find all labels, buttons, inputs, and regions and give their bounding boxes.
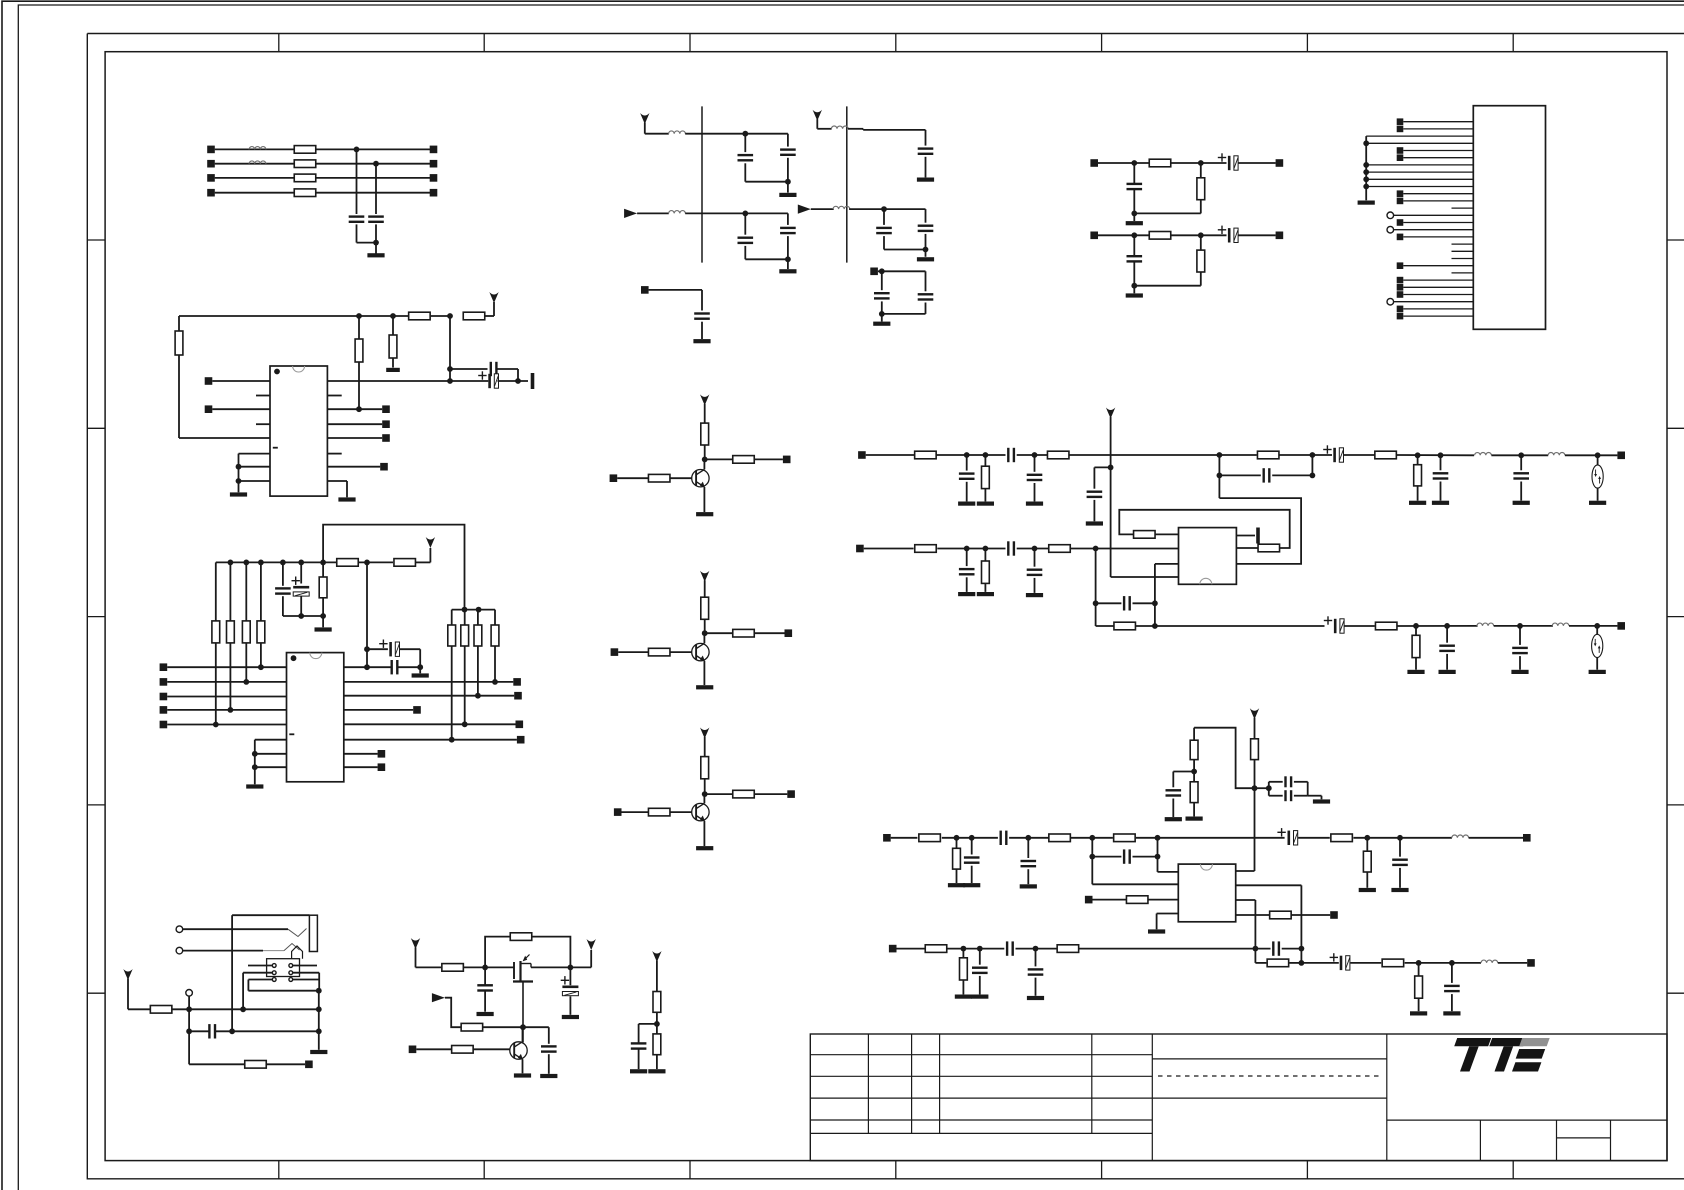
junction (1131, 283, 1137, 289)
resistor RK2 (1190, 740, 1198, 759)
inductor LJ1 (1475, 453, 1492, 456)
wire (238, 454, 240, 493)
junction (475, 693, 481, 699)
wire (344, 753, 378, 755)
ground (696, 846, 713, 850)
resistor RK7 (1331, 834, 1353, 842)
antenna ANT-D (123, 969, 132, 980)
wire (375, 224, 377, 242)
ground (873, 322, 890, 326)
jack ring contact (292, 946, 303, 959)
wire collector (703, 794, 705, 803)
resistor RK10 (1126, 896, 1148, 904)
capacitor CD1 (208, 1024, 210, 1038)
resistor RB3 left (175, 331, 183, 355)
wire (1134, 212, 1201, 214)
resistor RC-right (477, 610, 479, 625)
pad (1617, 452, 1625, 460)
ground (1165, 817, 1182, 821)
node VCC rail B (179, 315, 408, 317)
wire (1172, 799, 1174, 818)
junction (1155, 854, 1161, 860)
terminator T-bar (1256, 528, 1260, 544)
pad CN1-17 (1397, 234, 1404, 241)
wire (1071, 548, 1179, 550)
wire (1096, 625, 1114, 627)
ground (1313, 799, 1330, 803)
wire (1236, 547, 1258, 549)
junction (964, 452, 970, 458)
wire loop (485, 937, 510, 968)
resistor RC-left (215, 562, 217, 621)
wire sw row2 (243, 972, 272, 974)
capacitor CF1 (744, 134, 746, 152)
wire (1093, 500, 1095, 521)
wire (522, 1059, 524, 1073)
net line A3 (215, 177, 434, 179)
pad A3 right (430, 174, 438, 182)
wire (1092, 856, 1121, 858)
junction (298, 613, 304, 619)
wire (639, 1023, 657, 1025)
pad (378, 763, 386, 771)
resistor RJ12 (1114, 622, 1136, 630)
pad (1523, 834, 1531, 842)
wire pin4 stub (256, 423, 270, 425)
capacitor CK10 (1006, 941, 1008, 955)
pad A2 right (430, 160, 438, 168)
pad CN1-25 (1397, 291, 1404, 298)
capacitor CF8 (925, 209, 927, 223)
wire (1236, 884, 1302, 886)
wire (925, 157, 927, 178)
junction B9 (236, 478, 242, 484)
wire (1095, 549, 1097, 627)
net line A4 (215, 192, 434, 194)
wire (670, 811, 696, 813)
ground (779, 269, 796, 273)
wire (1396, 454, 1474, 456)
wire (1236, 914, 1270, 916)
junction (1152, 623, 1158, 629)
junction B6 (447, 378, 453, 384)
wire (704, 619, 706, 633)
junction (1198, 160, 1204, 166)
wire (1136, 837, 1285, 839)
resistor RJ3 shunt (984, 455, 986, 466)
pad U2 left (160, 678, 168, 686)
wire (482, 1026, 549, 1028)
pad U1 pin3 (205, 405, 213, 413)
wire (705, 632, 733, 634)
node VDD rail C (216, 561, 337, 563)
capacitor CJ8 shunt (1520, 455, 1522, 470)
pad H2 out (1276, 232, 1284, 240)
junction (1198, 232, 1204, 238)
wire (167, 666, 286, 668)
wire (1236, 870, 1255, 872)
bus line F-right (846, 106, 848, 262)
wire (704, 445, 706, 459)
wire (375, 164, 377, 214)
wire (897, 948, 925, 950)
wire (1239, 162, 1276, 164)
resistor RC1 (322, 562, 324, 577)
ground (230, 492, 247, 496)
capacitor CJ3 shunt (1034, 455, 1036, 472)
ground (1513, 501, 1530, 505)
title block revision table (810, 1054, 1152, 1056)
net line A1 (215, 148, 434, 150)
wire (1148, 899, 1178, 901)
wire (1096, 602, 1122, 604)
capacitor CJ15 shunt (1519, 626, 1521, 645)
wire U1 right pin6 stub (327, 453, 341, 455)
wire (878, 270, 926, 272)
wire (705, 458, 733, 460)
wire (1155, 625, 1325, 627)
wire stub (1236, 535, 1255, 537)
wire pin8 (239, 480, 271, 482)
resistor RJ6 shunt (1417, 455, 1419, 464)
resistor RG3c (648, 808, 670, 816)
wire collector (703, 459, 705, 469)
wire (1272, 474, 1312, 476)
wire (167, 681, 286, 683)
wire (1345, 625, 1375, 627)
ground (1410, 1011, 1427, 1015)
junction (1032, 546, 1038, 552)
wire (745, 181, 788, 183)
wire (882, 313, 926, 315)
wire (1280, 454, 1333, 456)
capacitor CE4 (631, 1042, 647, 1044)
wire CN1-18 stub (1452, 243, 1474, 245)
wire (1255, 787, 1269, 789)
wire (366, 562, 368, 667)
pad K-row2 in (889, 945, 897, 953)
ground (1443, 1011, 1460, 1015)
ground (917, 178, 934, 182)
resistor RJ5 (1375, 451, 1397, 459)
pad (382, 420, 390, 428)
wire (464, 966, 514, 968)
capacitor CF3 (744, 213, 746, 234)
wire (1469, 837, 1523, 839)
capacitor CE1 electrolytic (562, 986, 578, 989)
wire (937, 548, 1005, 550)
resistor RJ13 (1375, 622, 1397, 630)
ground (1589, 501, 1606, 505)
antenna ANT-G2 (700, 571, 709, 582)
op-amp U4 (1178, 864, 1235, 922)
junction (785, 179, 791, 185)
capacitor CB2 electrolytic (488, 374, 491, 388)
wire (212, 408, 270, 410)
frame zone ticks left (87, 239, 105, 241)
wire (1092, 883, 1178, 885)
terminal circle J1-2 (176, 947, 183, 954)
wire CN1-22 stub (1452, 272, 1474, 274)
ground (977, 502, 994, 506)
ground (1148, 929, 1165, 933)
wire CN1-3 (1366, 135, 1473, 137)
wire (189, 1030, 209, 1032)
resistor RC-left (229, 562, 231, 621)
junction (1089, 835, 1095, 841)
wire (670, 651, 696, 653)
ground (1432, 501, 1449, 505)
resistor RH2a (1149, 232, 1171, 240)
junction (213, 722, 219, 728)
wire (266, 1063, 305, 1065)
pad CN1-27 (1397, 306, 1404, 313)
resistor RK17 shunt (1418, 963, 1420, 976)
wire (685, 133, 788, 135)
wire loop over IC2 (323, 525, 464, 610)
resistor RE3 (461, 1023, 483, 1031)
wire (1071, 837, 1113, 839)
junction rail (320, 560, 326, 566)
pad CN1-23 (1397, 277, 1404, 284)
junction (462, 607, 468, 613)
resistor RC-right (451, 610, 453, 625)
junction (702, 457, 708, 463)
wire CN1-20 stub (1452, 258, 1474, 260)
pad CN1-11 (1397, 190, 1404, 197)
wire (1134, 285, 1201, 287)
junction (1131, 211, 1137, 217)
capacitor CK4 (1000, 831, 1002, 845)
inductor LJ2 (1548, 453, 1565, 456)
ground (1086, 521, 1103, 525)
junction (417, 664, 423, 670)
junction (1033, 946, 1039, 952)
pad A1 left (207, 146, 215, 154)
resistor RJ9 shunt (984, 549, 986, 562)
junction (568, 965, 574, 971)
pad CN1-15 (1397, 219, 1404, 226)
junction (520, 1024, 526, 1030)
wire (1282, 948, 1302, 950)
wire (637, 212, 669, 214)
capacitor CK13 shunt (1035, 949, 1037, 967)
ground (1026, 502, 1043, 506)
wire resistor-top bus (452, 609, 495, 611)
capacitor CJ12 (1123, 596, 1125, 610)
resistor RJ7 (915, 545, 937, 553)
pad H2 in (1090, 232, 1098, 240)
pad A4 left (207, 189, 215, 197)
wire U1 right pin7 (327, 466, 380, 468)
junction (1518, 452, 1524, 458)
junction (243, 679, 249, 685)
pad A2 left (207, 160, 215, 168)
capacitor CK14 electrolytic (1340, 956, 1343, 970)
pad (382, 434, 390, 442)
wire U1 right pin2 (327, 395, 341, 397)
resistor RK11 (1270, 911, 1292, 919)
wire (1157, 838, 1159, 872)
wire (649, 289, 702, 291)
wire (1239, 234, 1276, 236)
wire (1173, 771, 1194, 773)
wire (189, 1063, 245, 1065)
junction (954, 835, 960, 841)
junction (879, 268, 885, 274)
resistor RJ8 (1049, 545, 1071, 553)
wire (1069, 454, 1256, 456)
wire U2 right (344, 681, 514, 683)
junction (252, 751, 258, 757)
wire (1344, 454, 1375, 456)
wire (685, 212, 788, 214)
wire (1171, 162, 1227, 164)
pad (305, 1061, 313, 1069)
wire (569, 996, 571, 1015)
wire (622, 811, 649, 813)
wire (167, 709, 286, 711)
junction (1310, 452, 1316, 458)
wire (942, 837, 998, 839)
wire CN1-10 (1366, 186, 1473, 188)
pad H1 out (1276, 159, 1284, 167)
ground (1126, 293, 1143, 297)
capacitor CJ14 shunt (1446, 626, 1448, 643)
wire (848, 128, 863, 130)
pad (517, 736, 525, 744)
wire U1 right pin8 (327, 480, 347, 482)
wire (936, 454, 1006, 456)
pad K-row1 in (883, 834, 891, 842)
pad (641, 286, 649, 294)
resonator XJ1 (1597, 455, 1599, 465)
resistor RH1a (1149, 159, 1171, 167)
junction rail (364, 560, 370, 566)
capacitor CK2 (1269, 781, 1283, 783)
resistor RK16 (1382, 959, 1404, 967)
wire (1405, 962, 1481, 964)
capacitor CJ13 electrolytic (1334, 619, 1337, 633)
junction (364, 646, 370, 652)
capacitor CK1 (1166, 789, 1182, 791)
resistor RD1 (150, 1006, 172, 1014)
wire (866, 454, 915, 456)
frame zone ticks top (278, 34, 280, 52)
junction (1364, 835, 1370, 841)
bus wire (1110, 417, 1112, 577)
capacitor CJ1 (1007, 448, 1009, 462)
wire CN1-7 (1366, 164, 1473, 166)
ground (540, 1074, 557, 1078)
capacitor CK7 shunt (1027, 838, 1029, 858)
junction (1594, 623, 1600, 629)
pad (870, 268, 878, 276)
resistor RG3a (701, 757, 709, 779)
antenna ANT-E1 (411, 938, 420, 949)
ground (1589, 670, 1606, 674)
wire (522, 1027, 524, 1042)
resistor RH1b (1200, 163, 1202, 178)
ground (246, 784, 263, 788)
ground (315, 627, 332, 631)
junction (654, 1021, 660, 1027)
junction A2 (373, 161, 379, 167)
wire (255, 753, 287, 755)
pad (380, 463, 388, 471)
wire (450, 368, 488, 370)
resistor RG1b (733, 456, 755, 464)
wire jack top (232, 914, 309, 916)
inductor LF2 (669, 211, 686, 214)
wire CN1-13 stub (1452, 207, 1474, 209)
ground (1391, 888, 1408, 892)
antenna ANT-F1 (640, 113, 649, 124)
title block dashed line (1158, 1075, 1382, 1077)
terminal circle J1-3 (186, 990, 193, 997)
ground (367, 253, 384, 257)
antenna ANT-E2 (587, 939, 596, 950)
resistor RB1 (409, 312, 431, 320)
wire (1569, 625, 1617, 627)
pad A4 right (430, 189, 438, 197)
junction B8 (236, 464, 242, 470)
resistor RK13 (1057, 945, 1079, 953)
capacitor CJ7 shunt (1440, 455, 1442, 470)
ground (514, 1073, 531, 1077)
transistor Q4 (510, 1042, 527, 1059)
wire (1193, 803, 1195, 817)
ground (1511, 670, 1528, 674)
pad (1085, 896, 1093, 904)
capacitor CF10 (881, 271, 883, 290)
wire (356, 149, 358, 214)
capacitor CC4 (391, 660, 393, 674)
wire (496, 368, 518, 370)
resistor RB4 (355, 339, 363, 362)
junction (1093, 546, 1099, 552)
wire (1219, 474, 1260, 476)
wire CN1-4 (1366, 142, 1473, 144)
capacitor CK15 shunt (1451, 963, 1453, 983)
transistor Q3 (692, 803, 709, 820)
antenna ANT-K (1250, 708, 1259, 719)
junction (186, 1006, 192, 1012)
resistor RE2 (510, 933, 532, 941)
capacitor CH2 electrolytic (1228, 228, 1231, 242)
wire pin6 (239, 453, 271, 455)
wire (397, 666, 420, 668)
junction (229, 1028, 235, 1034)
wire (1236, 899, 1256, 901)
resistor RA1 (294, 146, 316, 154)
pad CN1-12 (1397, 198, 1404, 205)
wire sw row3 (248, 979, 272, 981)
capacitor CC3 electrolytic (389, 642, 392, 656)
wire (817, 128, 831, 130)
pad J-row2 in (856, 545, 864, 553)
transistor Q2 (692, 643, 709, 660)
wire (255, 766, 287, 768)
resistor RA3 (294, 174, 316, 182)
pad U2 left (160, 693, 168, 701)
junction (1416, 960, 1422, 966)
wire (485, 315, 494, 317)
wire (755, 632, 785, 634)
ground (958, 592, 975, 596)
inductor LK1 (1452, 835, 1469, 838)
ground (948, 883, 965, 887)
